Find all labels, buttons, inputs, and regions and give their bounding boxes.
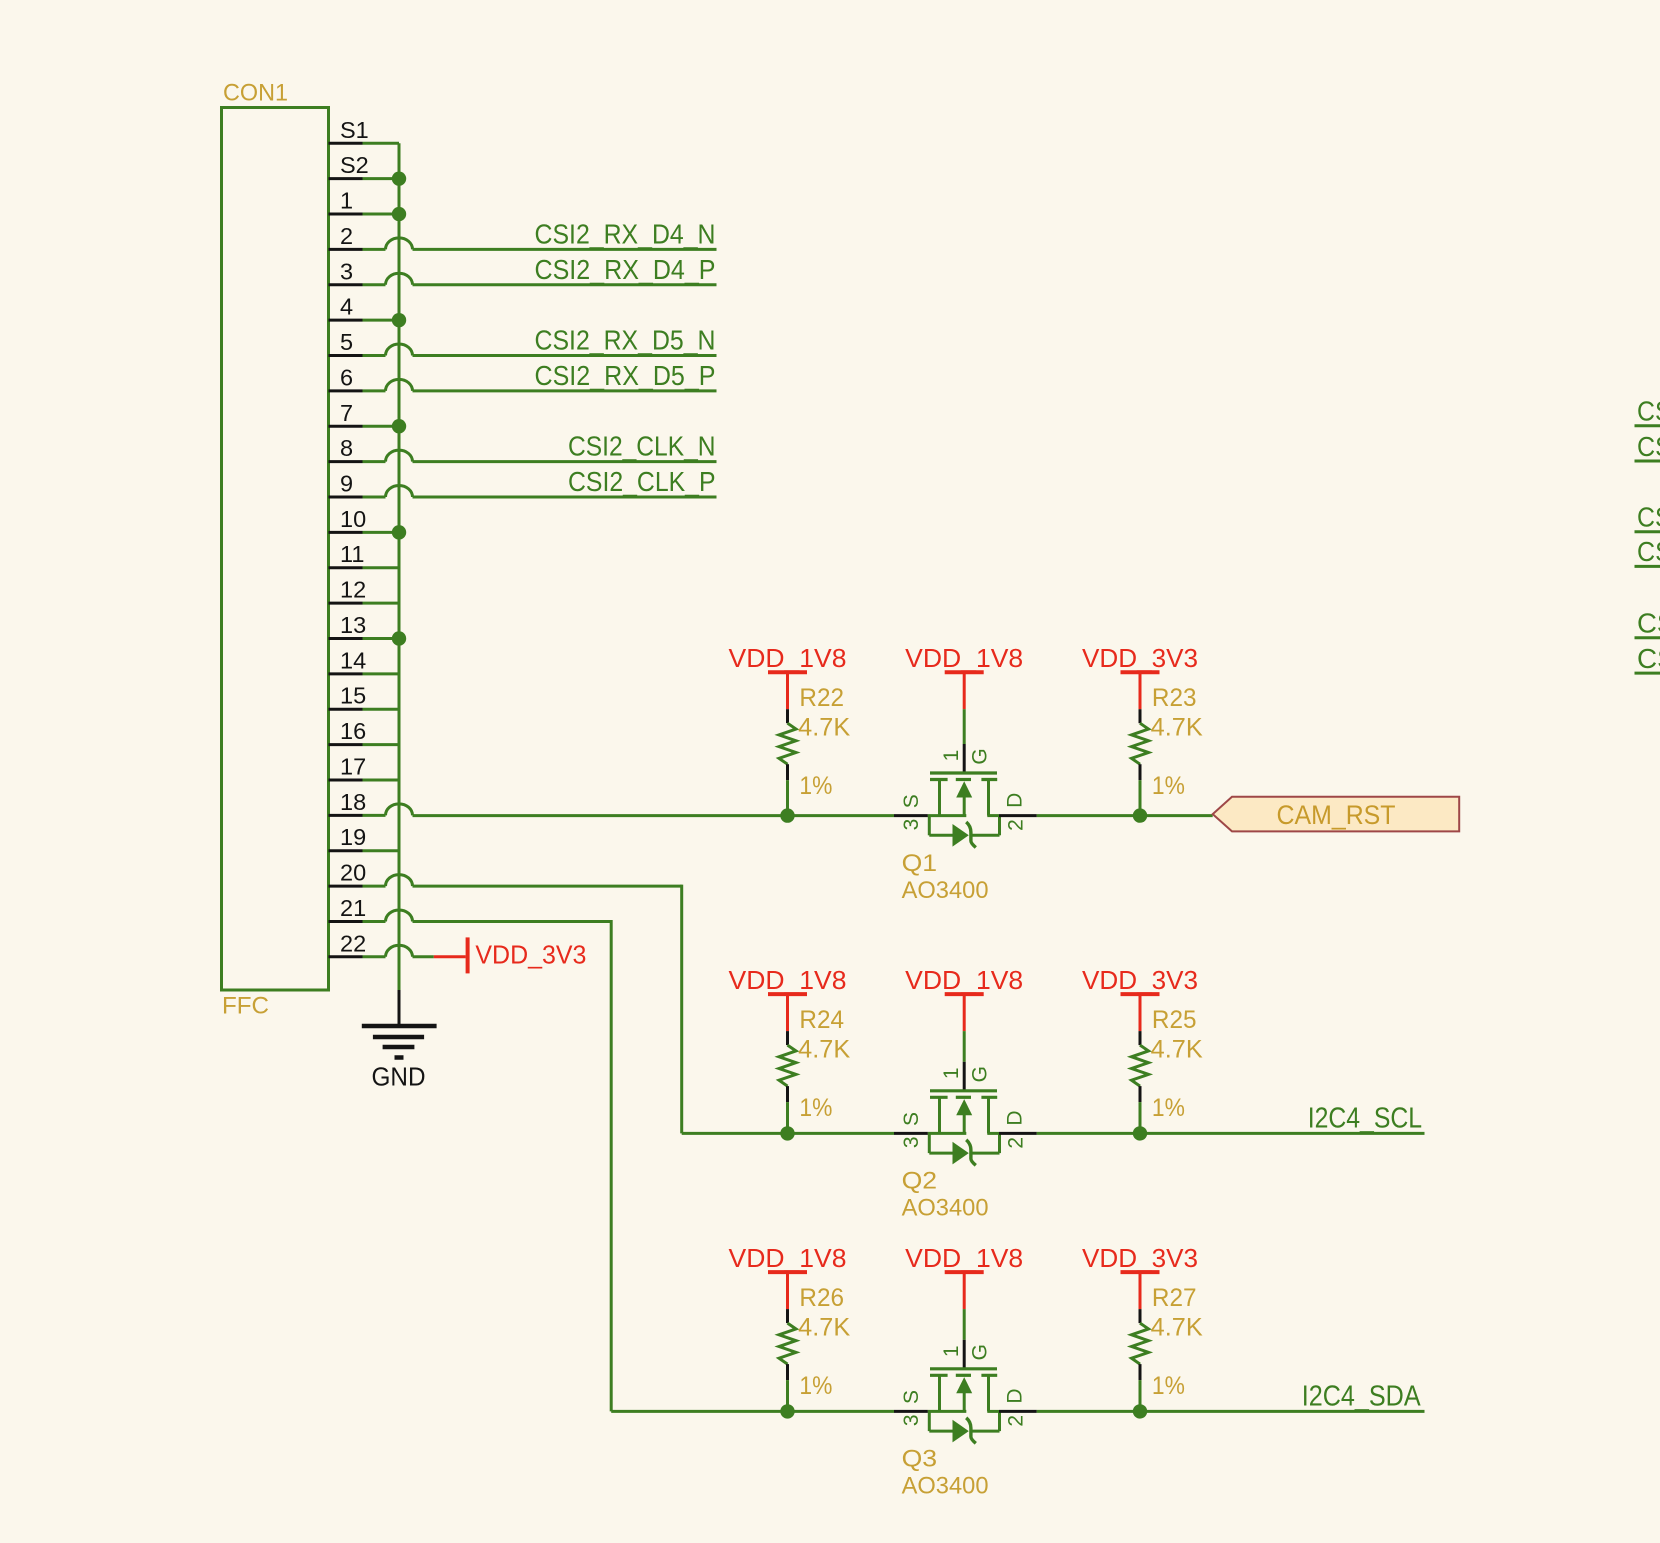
- svg-text:9: 9: [340, 471, 353, 497]
- power port VDD_1V8 above R24: [768, 994, 807, 1031]
- svg-text:CSI2_RX_D5_N: CSI2_RX_D5_N: [535, 325, 716, 356]
- svg-text:AO3400: AO3400: [902, 1473, 989, 1500]
- pin 8: [329, 435, 413, 462]
- transistor Q2 AO3400: [894, 1062, 1037, 1166]
- wire pin 8 to net label: [413, 460, 717, 463]
- svg-text:1%: 1%: [799, 772, 832, 800]
- pin 9: [329, 471, 413, 498]
- svg-text:I2C4_SDA: I2C4_SDA: [1302, 1381, 1421, 1413]
- svg-text:CSI2_RX_D5_P: CSI2_RX_D5_P: [535, 360, 716, 391]
- svg-text:G: G: [969, 1066, 992, 1082]
- svg-text:CSI2_CLK_N: CSI2_CLK_N: [568, 431, 716, 462]
- svg-text:S2: S2: [340, 152, 369, 178]
- svg-text:2: 2: [1005, 819, 1028, 831]
- svg-text:4.7K: 4.7K: [798, 1035, 850, 1063]
- resistor R25 4.7K: [1132, 1031, 1149, 1133]
- svg-text:CSI2_CLK1_P: CSI2_CLK1_P: [1637, 643, 1660, 674]
- svg-text:CSI2_CLK1_N: CSI2_CLK1_N: [1637, 608, 1660, 639]
- wire pin 2 to net label: [413, 248, 717, 251]
- svg-text:20: 20: [340, 860, 366, 886]
- svg-text:4.7K: 4.7K: [1151, 1313, 1203, 1341]
- connector CON1 body: [222, 108, 329, 991]
- ground GND: [362, 990, 437, 1058]
- wire Q3 drain to I2C4_SDA: [1037, 1410, 1425, 1413]
- junction R27/wire: [1133, 1404, 1147, 1418]
- svg-text:16: 16: [340, 718, 366, 744]
- svg-text:CSI2_RX_D2_N: CSI2_RX_D2_N: [1637, 396, 1660, 427]
- svg-text:3: 3: [340, 258, 353, 284]
- svg-text:1: 1: [340, 188, 353, 214]
- pin 21: [329, 895, 413, 922]
- power port VDD_1V8 above gate: [945, 672, 984, 709]
- svg-text:I2C4_SCL: I2C4_SCL: [1308, 1103, 1422, 1135]
- wire pin 3 to net label: [413, 283, 717, 286]
- wire at right edge for CSI2_CLK1_P: [1635, 672, 1660, 675]
- svg-text:Q3: Q3: [902, 1446, 938, 1473]
- svg-text:D: D: [1003, 793, 1026, 808]
- svg-text:22: 22: [340, 930, 366, 956]
- junction at pin 1: [392, 207, 406, 221]
- wire Q2 drain to I2C4_SCL: [1037, 1132, 1425, 1135]
- power port VDD_1V8 above R26: [768, 1272, 807, 1309]
- svg-text:CSI2_RX_D2_P: CSI2_RX_D2_P: [1637, 431, 1660, 462]
- pin 6: [329, 364, 413, 391]
- wire at right edge for CSI2_RX_D3_N: [1635, 530, 1660, 533]
- svg-text:4: 4: [340, 294, 353, 320]
- wire Q1 drain to CAM_RST port: [1037, 814, 1213, 817]
- junction at pin S2: [392, 171, 406, 185]
- pin 18: [329, 789, 413, 816]
- svg-text:10: 10: [340, 506, 366, 532]
- svg-text:2: 2: [1005, 1137, 1028, 1149]
- transistor Q3 AO3400: [894, 1340, 1037, 1444]
- svg-text:VDD_1V8: VDD_1V8: [905, 643, 1023, 673]
- pin S2: [329, 152, 400, 179]
- wire pin 5 to net label: [413, 354, 717, 357]
- wire pin 6 to net label: [413, 389, 717, 392]
- svg-text:R24: R24: [799, 1006, 844, 1034]
- resistor R27 4.7K: [1132, 1309, 1149, 1411]
- pin 7: [329, 400, 400, 427]
- svg-text:VDD_1V8: VDD_1V8: [729, 643, 847, 673]
- junction R23/wire: [1133, 808, 1147, 822]
- wire gate: [963, 1309, 966, 1340]
- wire at right edge for CSI2_CLK1_N: [1635, 636, 1660, 639]
- pin 10: [329, 506, 400, 533]
- pin 16: [329, 718, 400, 745]
- power port VDD_1V8 above gate: [945, 1272, 984, 1309]
- svg-text:1: 1: [940, 1067, 963, 1079]
- svg-text:Q1: Q1: [902, 850, 938, 877]
- svg-text:CSI2_RX_D3_N: CSI2_RX_D3_N: [1637, 502, 1660, 533]
- svg-text:R25: R25: [1152, 1006, 1197, 1034]
- svg-text:11: 11: [340, 541, 364, 567]
- junction at pin 13: [392, 631, 406, 645]
- svg-text:2: 2: [1005, 1415, 1028, 1427]
- junction at pin 10: [392, 525, 406, 539]
- svg-text:CSI2_RX_D3_P: CSI2_RX_D3_P: [1637, 536, 1660, 567]
- svg-text:D: D: [1003, 1111, 1026, 1126]
- svg-text:4.7K: 4.7K: [798, 1313, 850, 1341]
- wire gate: [963, 709, 966, 744]
- pin 5: [329, 329, 413, 356]
- svg-text:G: G: [969, 1344, 992, 1360]
- pin 15: [329, 683, 400, 710]
- svg-text:S: S: [900, 794, 923, 808]
- svg-text:8: 8: [340, 435, 353, 461]
- svg-text:12: 12: [340, 577, 366, 603]
- resistor R26 4.7K: [779, 1309, 796, 1411]
- pin 17: [329, 753, 400, 780]
- wire pin 9 to net label: [413, 496, 717, 499]
- svg-text:4.7K: 4.7K: [1151, 1035, 1203, 1063]
- transistor Q1 AO3400: [894, 744, 1037, 848]
- svg-text:17: 17: [340, 753, 366, 779]
- svg-text:FFC: FFC: [222, 993, 269, 1020]
- svg-text:1: 1: [940, 1345, 963, 1357]
- svg-text:4.7K: 4.7K: [1151, 713, 1203, 741]
- svg-text:14: 14: [340, 647, 366, 673]
- svg-text:5: 5: [340, 329, 353, 355]
- svg-text:S: S: [900, 1390, 923, 1404]
- pin 20: [329, 860, 413, 887]
- svg-text:VDD_1V8: VDD_1V8: [729, 1243, 847, 1273]
- junction R22/wire: [780, 808, 794, 822]
- resistor R22 4.7K: [779, 709, 796, 815]
- svg-text:S1: S1: [340, 117, 369, 143]
- svg-text:19: 19: [340, 824, 366, 850]
- power port VDD_3V3 above R27: [1121, 1272, 1160, 1309]
- junction R26/wire: [780, 1404, 794, 1418]
- junction R24/wire: [780, 1126, 794, 1140]
- svg-text:CSI2_RX_D4_N: CSI2_RX_D4_N: [535, 219, 716, 250]
- pin 2: [329, 223, 413, 250]
- svg-text:R23: R23: [1152, 684, 1197, 712]
- svg-text:CON1: CON1: [223, 80, 288, 107]
- junction at pin 4: [392, 313, 406, 327]
- svg-text:6: 6: [340, 364, 353, 390]
- power port VDD_3V3 above R23: [1121, 672, 1160, 709]
- pin 22: [329, 930, 413, 957]
- power port VDD_3V3 above R25: [1121, 994, 1160, 1031]
- pin 3: [329, 258, 413, 285]
- svg-text:2: 2: [340, 223, 353, 249]
- svg-text:CSI2_RX_D4_P: CSI2_RX_D4_P: [535, 254, 716, 285]
- resistor R24 4.7K: [779, 1031, 796, 1133]
- svg-text:AO3400: AO3400: [902, 1195, 989, 1222]
- wire pin 22 to power: [413, 955, 434, 958]
- wire at right edge for CSI2_RX_D2_N: [1635, 424, 1660, 427]
- pin 12: [329, 577, 400, 604]
- pin 14: [329, 647, 400, 674]
- wire at right edge for CSI2_RX_D2_P: [1635, 460, 1660, 463]
- pin 11: [329, 541, 400, 568]
- svg-text:Q2: Q2: [902, 1168, 938, 1195]
- svg-text:4.7K: 4.7K: [798, 713, 850, 741]
- wire gate: [963, 1031, 966, 1062]
- pin 4: [329, 294, 400, 321]
- wire pin 20 to Q2 source (I2C4_SCL): [413, 885, 895, 1134]
- svg-text:15: 15: [340, 683, 366, 709]
- svg-text:3: 3: [900, 1414, 923, 1426]
- wire at right edge for CSI2_RX_D3_P: [1635, 565, 1660, 568]
- svg-text:18: 18: [340, 789, 366, 815]
- svg-text:VDD_1V8: VDD_1V8: [729, 965, 847, 995]
- svg-text:13: 13: [340, 612, 366, 638]
- pin 19: [329, 824, 400, 851]
- wire GND bus: [398, 143, 401, 990]
- junction at pin 7: [392, 419, 406, 433]
- svg-text:3: 3: [900, 819, 923, 831]
- svg-text:VDD_1V8: VDD_1V8: [905, 1243, 1023, 1273]
- wire pin 18 to Q1 source: [413, 814, 895, 817]
- svg-text:3: 3: [900, 1136, 923, 1148]
- svg-text:VDD_3V3: VDD_3V3: [1082, 965, 1198, 995]
- svg-text:VDD_1V8: VDD_1V8: [905, 965, 1023, 995]
- svg-text:R26: R26: [799, 1284, 844, 1312]
- svg-text:1%: 1%: [1152, 1372, 1185, 1400]
- svg-text:R22: R22: [799, 684, 844, 712]
- svg-text:1%: 1%: [799, 1372, 832, 1400]
- power port VDD_3V3 (pin 22): [434, 937, 468, 973]
- power port VDD_1V8 above gate: [945, 994, 984, 1031]
- port CAM_RST: [1213, 797, 1460, 832]
- svg-text:AO3400: AO3400: [902, 877, 989, 904]
- svg-text:VDD_3V3: VDD_3V3: [475, 940, 586, 970]
- pin S1: [329, 117, 400, 144]
- svg-text:CSI2_CLK_P: CSI2_CLK_P: [568, 466, 716, 497]
- svg-text:VDD_3V3: VDD_3V3: [1082, 643, 1198, 673]
- svg-text:S: S: [900, 1112, 923, 1126]
- resistor R23 4.7K: [1132, 709, 1149, 815]
- power port VDD_1V8 above R22: [768, 672, 807, 709]
- svg-text:G: G: [969, 748, 992, 764]
- svg-text:1: 1: [940, 750, 963, 762]
- svg-text:1%: 1%: [799, 1094, 832, 1122]
- svg-text:7: 7: [340, 400, 353, 426]
- svg-text:R27: R27: [1152, 1284, 1197, 1312]
- pin 1: [329, 188, 400, 215]
- svg-text:VDD_3V3: VDD_3V3: [1082, 1243, 1198, 1273]
- svg-text:CAM_RST: CAM_RST: [1277, 800, 1396, 830]
- pin 13: [329, 612, 400, 639]
- junction R25/wire: [1133, 1126, 1147, 1140]
- svg-text:1%: 1%: [1152, 1094, 1185, 1122]
- svg-text:1%: 1%: [1152, 772, 1185, 800]
- svg-text:21: 21: [340, 895, 366, 921]
- wire pin 21 to Q3 source (I2C4_SDA): [413, 920, 895, 1411]
- svg-text:D: D: [1003, 1389, 1026, 1404]
- svg-text:GND: GND: [372, 1064, 426, 1092]
